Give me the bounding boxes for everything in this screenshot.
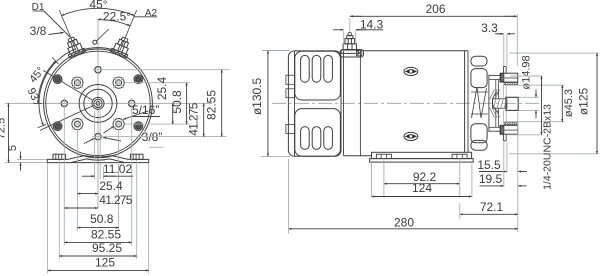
- svg-text:ø130.5: ø130.5: [250, 77, 264, 115]
- svg-text:206: 206: [425, 2, 445, 16]
- svg-text:82.55: 82.55: [204, 90, 218, 120]
- svg-text:124: 124: [412, 181, 432, 195]
- svg-text:41.275: 41.275: [187, 102, 201, 136]
- svg-text:72.1: 72.1: [480, 200, 504, 214]
- svg-text:82.55: 82.55: [91, 228, 121, 242]
- svg-text:25.4: 25.4: [99, 179, 123, 193]
- svg-text:19.5: 19.5: [479, 172, 503, 186]
- svg-text:50.8: 50.8: [170, 90, 184, 114]
- svg-text:95.25: 95.25: [92, 241, 122, 255]
- svg-text:125: 125: [95, 256, 115, 270]
- svg-text:3.3: 3.3: [481, 21, 498, 35]
- svg-text:ø125: ø125: [577, 88, 591, 116]
- svg-text:3/8: 3/8: [30, 24, 47, 38]
- svg-text:25.4: 25.4: [155, 76, 169, 100]
- svg-text:280: 280: [394, 216, 414, 230]
- svg-text:5: 5: [7, 145, 19, 151]
- svg-text:41.275: 41.275: [99, 193, 133, 207]
- svg-text:22.5°: 22.5°: [103, 10, 131, 24]
- svg-text:ø14.98: ø14.98: [520, 55, 532, 89]
- svg-text:11.02: 11.02: [103, 162, 132, 176]
- svg-text:72.5: 72.5: [0, 118, 8, 139]
- svg-text:15.5: 15.5: [477, 158, 501, 172]
- svg-text:3/8”: 3/8”: [142, 130, 163, 144]
- svg-text:1/4-20UNC-2Bx13: 1/4-20UNC-2Bx13: [542, 104, 554, 190]
- svg-text:50.8: 50.8: [90, 212, 114, 226]
- svg-text:ø45.3: ø45.3: [563, 89, 575, 117]
- svg-text:14.3: 14.3: [360, 18, 384, 32]
